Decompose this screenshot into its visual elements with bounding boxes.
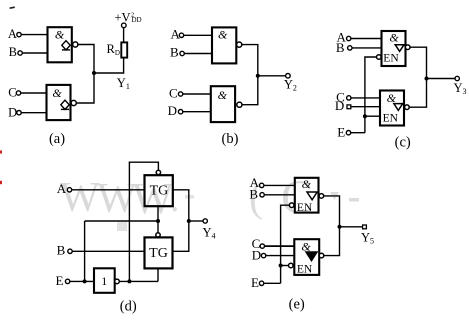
junction node Y2 xyxy=(256,74,260,78)
svg-text:(c): (c) xyxy=(395,135,411,151)
svg-text:B: B xyxy=(336,40,345,55)
wire D to G4 xyxy=(183,111,211,113)
gate G6 output bubble xyxy=(405,105,410,110)
gate G7 (tri-state NAND, inputs A,B) xyxy=(295,178,319,213)
gate G8 (tri-state NAND, inputs C,D) xyxy=(294,239,319,275)
svg-text:&: & xyxy=(218,88,228,102)
wire TG2 output to node Y4 xyxy=(173,221,189,251)
svg-text:E: E xyxy=(337,125,345,140)
svg-text:(a): (a) xyxy=(49,131,65,147)
input B terminal (d) xyxy=(68,249,72,253)
junction node Y3 xyxy=(425,77,429,81)
svg-text:EN: EN xyxy=(383,53,399,65)
svg-text:B: B xyxy=(170,45,179,60)
svg-text:(: ( xyxy=(249,175,263,221)
svg-text:(d): (d) xyxy=(120,298,137,314)
output Y5 terminal square xyxy=(363,225,367,229)
svg-text:D: D xyxy=(8,105,17,119)
wire node to Y3 terminal xyxy=(427,78,456,80)
svg-text:B: B xyxy=(9,45,17,59)
wire C to G4 xyxy=(183,93,211,95)
gate G6 (tri-state NAND, inputs C,D) xyxy=(380,91,404,126)
input C terminal (e) xyxy=(260,244,264,248)
wire A to TG1 xyxy=(72,189,145,191)
input E terminal (e) xyxy=(259,281,263,285)
svg-text:B: B xyxy=(57,243,66,258)
input B terminal (e) xyxy=(260,193,264,197)
red speck left edge 1 xyxy=(0,151,2,154)
svg-text:&: & xyxy=(218,28,228,42)
gate G1 open-drain diamond xyxy=(62,41,70,50)
gate G6 tri-state triangle xyxy=(394,104,403,111)
gate G7 output bubble xyxy=(319,194,324,199)
gate G8 output bubble xyxy=(319,253,324,258)
gate G1 (open-drain NAND, inputs A,B) xyxy=(48,27,72,62)
svg-text:EN: EN xyxy=(297,264,313,276)
wire B to TG2 xyxy=(72,250,144,252)
svg-text:W: W xyxy=(132,174,174,223)
svg-text:D: D xyxy=(252,247,261,262)
gate G4 output bubble xyxy=(237,102,242,107)
resistor RD body xyxy=(121,42,127,57)
wire G7 EN to E rail xyxy=(281,205,290,283)
junction dot EN line xyxy=(363,114,367,118)
input B terminal (c) xyxy=(348,46,352,50)
input E terminal (d) xyxy=(65,279,69,283)
gate G7 EN bubble xyxy=(289,203,294,208)
transmission gate TG1 xyxy=(145,175,173,206)
wire D to G6 xyxy=(351,106,380,108)
wire D to G8 xyxy=(266,255,295,257)
input E terminal (c) xyxy=(346,131,350,135)
wire G6 output to node Y3 xyxy=(409,79,426,108)
svg-text:E: E xyxy=(56,273,64,288)
wire B to G7 xyxy=(264,194,295,196)
input D terminal (c) square xyxy=(347,105,351,109)
gate G8 EN bubble xyxy=(289,263,294,268)
wire TG1 bottom control to E rail xyxy=(157,206,159,221)
wire node to resistor xyxy=(94,58,124,73)
svg-text:A: A xyxy=(8,27,17,41)
input A terminal (c) xyxy=(347,36,351,40)
inverter U1 box xyxy=(94,268,115,293)
gate G5 EN bubble xyxy=(377,55,382,60)
svg-text:D: D xyxy=(168,103,177,118)
wire inverter output rail xyxy=(119,280,158,282)
gate G3 output bubble xyxy=(237,42,242,47)
gate G2 open-drain diamond xyxy=(61,100,69,109)
gate G5 tri-state triangle xyxy=(395,45,404,52)
wire E to vertical xyxy=(351,132,365,134)
svg-text:C: C xyxy=(281,171,313,224)
wire G3 output to node Y2 xyxy=(242,45,258,76)
svg-text:C: C xyxy=(8,86,16,100)
output Y4 terminal xyxy=(203,219,207,223)
input D terminal (b) xyxy=(178,110,182,114)
svg-text:(e): (e) xyxy=(289,297,305,313)
wire TG1 bubble over to inverter output rail xyxy=(129,162,158,281)
svg-text:&: & xyxy=(55,27,65,41)
gate G3 (NAND, inputs A,B) xyxy=(212,27,236,63)
input D terminal (e) xyxy=(261,253,265,257)
wire A to G5 xyxy=(351,38,382,40)
input C terminal (c) xyxy=(347,96,351,100)
input A terminal xyxy=(17,32,21,36)
wire E to inverter xyxy=(70,280,94,282)
wire B to G1 xyxy=(22,52,47,54)
wire B to G3 xyxy=(184,53,212,55)
wire G4 output to node Y2 xyxy=(242,76,258,105)
gate G2 output bubble xyxy=(71,100,76,105)
wire C to G8 xyxy=(265,245,295,247)
wire resistor to VDD xyxy=(123,28,125,43)
svg-text:W: W xyxy=(60,175,100,221)
inverter U1 output bubble xyxy=(115,279,120,284)
gate G8 tri-state triangle xyxy=(306,252,317,261)
output Y3 terminal xyxy=(455,76,459,80)
TG1 control bubble xyxy=(156,170,160,174)
wire E branch vertical xyxy=(84,221,86,281)
transmission gate TG2 xyxy=(145,237,173,268)
wire node to Y2 terminal xyxy=(258,75,286,77)
wire G5 output to node Y3 xyxy=(410,47,427,78)
wire C to G2 xyxy=(21,92,47,94)
input B terminal (b) xyxy=(180,51,184,55)
wire G1 output to node xyxy=(78,45,94,74)
input B terminal xyxy=(18,51,22,55)
input C terminal (b) xyxy=(178,92,182,96)
wire B to G5 xyxy=(352,47,382,49)
input D terminal xyxy=(17,111,21,115)
watermark xyxy=(60,171,359,231)
wire A to G3 xyxy=(184,34,212,36)
wire node to Y4 terminal xyxy=(189,220,203,222)
wire TG2 bottom control to inverter rail xyxy=(157,268,159,281)
gate G7 tri-state triangle xyxy=(307,192,317,200)
wire G8 output to node Y5 xyxy=(324,227,340,256)
VDD terminal xyxy=(122,23,127,28)
wire G5 EN to E line xyxy=(365,57,377,133)
junction node wired-AND xyxy=(92,71,96,75)
svg-text:&: & xyxy=(387,91,397,105)
wire A to G1 xyxy=(21,34,47,36)
junction dot E branch xyxy=(156,219,160,223)
svg-text:&: & xyxy=(389,31,399,45)
wire D to G2 xyxy=(21,112,46,114)
wire TG1 output to node Y4 xyxy=(173,190,189,221)
svg-text:D: D xyxy=(335,98,344,113)
wire C to G6 xyxy=(351,97,380,99)
gate G4 (NAND, inputs C,D) xyxy=(211,86,235,122)
input A terminal (d) xyxy=(67,188,71,192)
wire E branch horizontal xyxy=(85,220,158,222)
output Y2 terminal xyxy=(286,74,291,79)
junction node Y4 xyxy=(187,219,191,223)
junction node Y5 xyxy=(338,225,342,229)
junction dot EN rail (e) xyxy=(279,264,283,268)
svg-text:E: E xyxy=(251,275,259,290)
wire EN junction to G8 bubble xyxy=(281,265,289,267)
svg-text:W: W xyxy=(97,176,137,222)
red speck left edge 2 xyxy=(0,181,2,184)
gate G5 (tri-state NAND, inputs A,B, EN active low) xyxy=(382,31,406,66)
svg-text:(b): (b) xyxy=(222,131,239,147)
svg-text:TG: TG xyxy=(149,246,168,261)
svg-text:.: . xyxy=(170,178,180,220)
stray dash top-left xyxy=(10,7,15,8)
svg-text:EN: EN xyxy=(383,112,399,124)
wire A to G7 xyxy=(264,184,295,186)
junction dot E to branch xyxy=(83,279,87,283)
wire EN junction to G6 xyxy=(365,115,380,117)
wire E branch to TG2 bubble xyxy=(157,221,159,233)
input A terminal (e) xyxy=(260,183,264,187)
wire G2 output to node xyxy=(76,73,94,103)
gate G5 output bubble xyxy=(405,45,410,50)
svg-text:DD: DD xyxy=(132,16,142,24)
gate G1 output bubble xyxy=(73,42,78,47)
wire node to Y5 terminal xyxy=(340,226,363,228)
TG2 control bubble xyxy=(156,233,160,237)
svg-text:+V: +V xyxy=(115,11,131,25)
gate G2 (open-drain NAND, inputs C,D) xyxy=(47,85,71,120)
wire E to rail (e) xyxy=(264,282,281,284)
svg-text:&: & xyxy=(52,86,62,100)
junction dot inverter rail xyxy=(127,279,131,283)
svg-text:C: C xyxy=(169,86,178,101)
input C terminal xyxy=(16,91,20,95)
svg-text:1: 1 xyxy=(101,274,107,288)
wire G7 output to node Y5 xyxy=(324,196,340,227)
input A terminal (b) xyxy=(179,33,183,37)
